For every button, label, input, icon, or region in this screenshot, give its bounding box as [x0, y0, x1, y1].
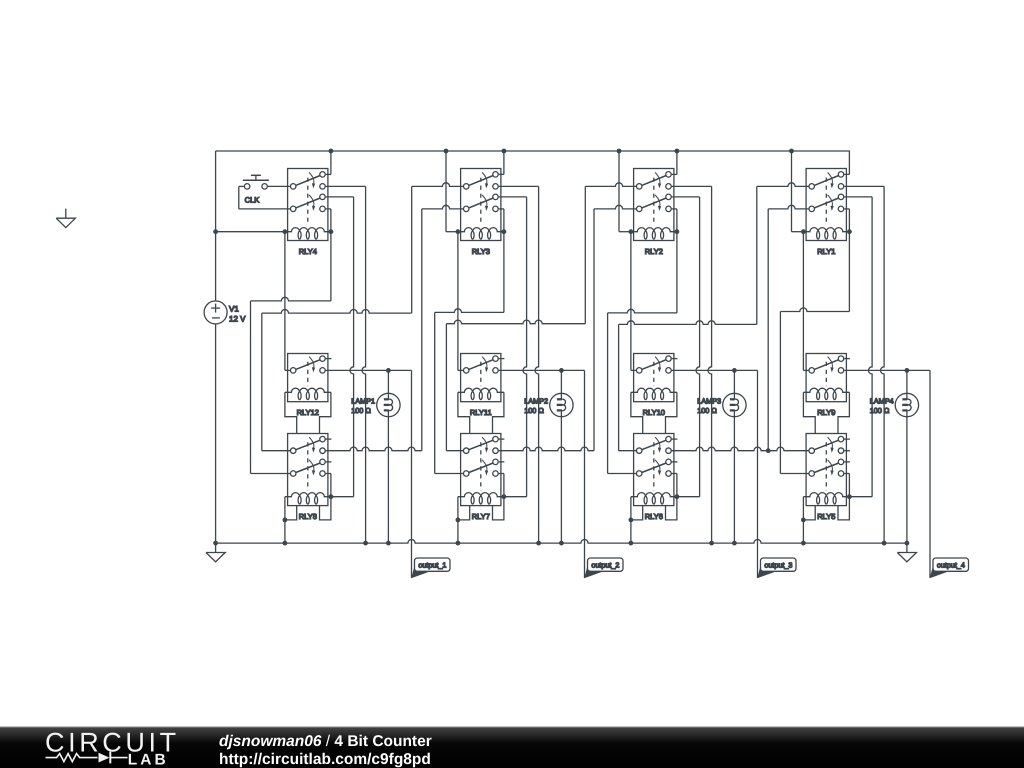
wire: RLY2 coil right down to h1 link — [676, 232, 678, 313]
svg-text:LAMP1: LAMP1 — [351, 396, 375, 405]
wire: V1 rail to RLY4 coil left — [216, 231, 285, 233]
stub: RLY11 NO unconnected — [499, 358, 505, 360]
wire: RLY11 NC to lamp and output node — [499, 369, 585, 371]
stub: RLY5 NO1 unconnected — [844, 438, 850, 440]
relay RLY5 pole 1 (common, NO, NC, blade, arrow) — [809, 448, 815, 454]
relay RLY5 pole 2 (common, NO, NC, blade, arrow) — [809, 471, 815, 477]
svg-text:RLY8: RLY8 — [299, 512, 317, 521]
stub: RLY6 NO1 unconnected — [672, 438, 678, 440]
voltage source V1 12 V — [204, 301, 227, 324]
junction dot RLY7 coil left — [456, 518, 461, 523]
wire: RLY2 NC2 down to coil right pin — [672, 208, 677, 210]
svg-text:LAB: LAB — [128, 751, 169, 768]
wire: RLY7 NC1 chain up to RLY2 common2 — [499, 447, 594, 451]
relay RLY1 coil — [803, 228, 849, 232]
relay RLY8 pole 2 (common, NO, NC, blade, arrow) — [290, 471, 296, 477]
relay RLY11 pole (common, NO, NC, blade, arrow) — [463, 368, 469, 374]
wire: RLY1 NC1 to bottom rail — [844, 185, 884, 187]
svg-text:RLY12: RLY12 — [297, 408, 319, 417]
wire: RLY3 coil right down to h1 link — [503, 232, 505, 313]
relay RLY10 coil — [631, 388, 677, 392]
svg-text:100 Ω: 100 Ω — [524, 406, 544, 415]
stub: RLY6 NO2 unconnected — [672, 461, 678, 463]
relay RLY10 (SPDT) box — [634, 354, 674, 402]
junction dot RLY6 coil right — [675, 494, 680, 499]
relay RLY8 (DPDT) box — [288, 434, 328, 506]
wire: RLY4 NC1 to bottom rail — [326, 185, 366, 187]
CircuitLab logo resistor and diode glyph — [46, 752, 128, 764]
relay RLY1 (DPDT) box — [806, 169, 846, 241]
wire: left power vertical from top rail to bottom rail — [215, 151, 217, 301]
relay RLY11 coil — [458, 388, 504, 392]
junction dot lamp top column 4 — [905, 368, 910, 373]
wire: lamp3 top lead — [733, 370, 735, 393]
svg-text:LAMP2: LAMP2 — [524, 396, 548, 405]
svg-text:LAMP3: LAMP3 — [697, 396, 721, 405]
svg-text:RLY2: RLY2 — [645, 247, 663, 256]
relay RLY9 pole (common, NO, NC, blade, arrow) — [809, 368, 815, 374]
wire: RLY4 coil right down to h1 link — [330, 232, 332, 301]
relay RLY5 (DPDT) box — [806, 434, 846, 506]
svg-text:100 Ω: 100 Ω — [697, 406, 717, 415]
svg-text:100 Ω: 100 Ω — [351, 406, 371, 415]
svg-text:LAMP4: LAMP4 — [870, 396, 894, 405]
lamp LAMP1 100 Ohm — [377, 393, 400, 416]
wire: h2 link column 3 (RLY6 common1 up and over to RLY1 common1) — [619, 450, 636, 452]
wire: RLY12 NC to lamp and output node — [326, 369, 412, 371]
wire: top rail jog to RLY2 coil left — [618, 151, 620, 232]
wire: RLY5 coil pin legs — [803, 506, 815, 520]
junction dot RLY8 coil left — [283, 518, 288, 523]
svg-text:output_2: output_2 — [591, 560, 619, 569]
wire: RLY4 NC2 down to coil right pin — [326, 208, 331, 210]
wire: top rail jog to RLY1 coil left — [791, 151, 793, 232]
wire: RLY6 coil pin legs — [631, 506, 643, 520]
relay RLY7 (DPDT) box — [461, 434, 501, 506]
ground (bottom left) — [215, 543, 217, 552]
wire: RLY7 NC2 down to coil right pin — [499, 473, 504, 475]
relay RLY6 pole 1 (common, NO, NC, blade, arrow) — [636, 448, 642, 454]
relay RLY6 (DPDT) box — [634, 434, 674, 506]
wire: RLY3 NC2 down to coil right pin — [499, 208, 504, 210]
svg-text:V1: V1 — [229, 305, 239, 314]
svg-text:output_4: output_4 — [937, 560, 965, 569]
stub: RLY10 NO unconnected — [672, 358, 678, 360]
stub: RLY12 NO unconnected — [326, 358, 332, 360]
wire: RLY3 NC1 to bottom rail — [499, 185, 539, 187]
wire: RLY1 NC2 down to coil right pin — [844, 208, 849, 210]
wire: RLY6 NC2 down to coil right pin — [672, 473, 677, 475]
lamp LAMP3 100 Ohm — [723, 393, 746, 416]
wire: top rail jog to RLY3 coil left — [445, 151, 447, 232]
svg-text:RLY10: RLY10 — [643, 408, 665, 417]
wire: output node column 2 down to flag — [584, 370, 586, 578]
ground symbol (floating, top left) — [65, 209, 67, 219]
svg-text:RLY4: RLY4 — [299, 247, 317, 256]
wire: output node column 3 down to flag — [757, 370, 759, 578]
wire: lamp1 bottom lead to ground rail — [387, 416, 389, 418]
relay RLY3 coil — [458, 228, 504, 232]
wire: h2 link column 2 (RLY7 common1 up and over to RLY2 common1) — [446, 450, 463, 452]
svg-text:RLY7: RLY7 — [472, 512, 490, 521]
svg-text:12 V: 12 V — [229, 314, 246, 323]
wire: RLY3 NO2 down to RLY7 coil right — [499, 196, 527, 198]
relay RLY8 coil — [285, 493, 331, 497]
wire: lamp3 bottom lead to ground rail — [733, 416, 735, 418]
wire: RLY10 NC to lamp and output node — [672, 369, 758, 371]
wire: RLY3 NO1 to top rail — [499, 173, 504, 175]
relay RLY4 (DPDT) box — [288, 169, 328, 241]
wire: RLY5 NC2 down to coil right pin — [844, 473, 849, 475]
relay RLY2 (DPDT) box — [634, 169, 674, 241]
wire: RLY8 NC1 chain up to RLY3 common2 — [326, 447, 422, 451]
svg-text:output_3: output_3 — [764, 560, 792, 569]
wire: RLY2 coil left down to RLY10 common — [630, 232, 632, 371]
junction dots at RLY1 coil pins — [801, 229, 806, 234]
wire: RLY2 NO2 down to RLY6 coil right — [672, 196, 700, 198]
relay RLY2 coil — [631, 228, 677, 232]
wire: RLY11 coil pins down to RLY7 — [458, 392, 470, 433]
stub: RLY8 NO2 unconnected — [326, 461, 332, 463]
stub: RLY9 NO unconnected — [844, 358, 850, 360]
junction dot lamp top column 2 — [559, 368, 564, 373]
junction dot lamp top column 3 — [732, 368, 737, 373]
wire: RLY6 NC1 chain through T junction to RLY5 common1 and up to RLY1 common2 — [672, 447, 809, 451]
junction dot RLY8 coil right — [329, 494, 334, 499]
relay RLY10 pole (common, NO, NC, blade, arrow) — [636, 368, 642, 374]
node flag output_3 — [757, 565, 775, 578]
relay RLY9 coil — [803, 388, 849, 392]
wire: lamp2 top lead — [560, 370, 562, 393]
relay RLY3 (DPDT) box — [461, 169, 501, 241]
wire: RLY6 coil left down to ground rail — [630, 497, 632, 543]
wire: RLY12 coil pins down to RLY8 — [285, 392, 297, 433]
wire: RLY4 NO2 down to RLY8 coil right — [326, 196, 354, 198]
wire: RLY1 coil right down to h1 link — [848, 232, 850, 312]
stub: RLY5 NC1 unconnected — [844, 450, 850, 452]
wire: RLY8 coil left down to ground rail — [284, 497, 286, 543]
svg-text:100 Ω: 100 Ω — [870, 406, 890, 415]
wire: RLY2 NC1 to bottom rail — [672, 185, 712, 187]
wire: RLY6 coil right to NO2 drop of RLY2 — [677, 496, 700, 498]
relay RLY2 pole 1 (common, NO, NC, blade, arrow) — [636, 184, 642, 190]
wire: CLK left terminal loop to RLY4 common2 — [239, 185, 244, 187]
node flag output_4 — [930, 565, 948, 578]
junction dot RLY7 coil right — [502, 494, 507, 499]
relay RLY3 pole 2 (common, NO, NC, blade, arrow) — [463, 206, 469, 212]
stub: RLY7 NO1 unconnected — [499, 438, 505, 440]
wire: RLY7 coil pin legs — [458, 506, 470, 520]
lamp LAMP4 100 Ohm — [895, 393, 918, 416]
stub: RLY7 NO2 unconnected — [499, 461, 505, 463]
wire: RLY8 coil right to NO2 drop of RLY4 — [331, 496, 354, 498]
wire: bottom ground rail — [216, 539, 907, 543]
junction dot RLY5 coil left — [801, 518, 806, 523]
wire: output node column 1 down to flag — [411, 370, 413, 578]
wire: h1 link of column 2 (to RLY7 common2) — [435, 309, 504, 313]
relay RLY11 (SPDT) box — [461, 354, 501, 402]
wire: RLY4 NO1 to top rail — [326, 173, 331, 175]
junction dots at RLY3 coil pins — [456, 229, 461, 234]
wire: h1 link of column 1 (to RLY8 common2) — [251, 297, 331, 301]
svg-text:RLY1: RLY1 — [817, 247, 835, 256]
junction dot lamp top column 1 — [386, 368, 391, 373]
svg-text:RLY9: RLY9 — [817, 408, 835, 417]
wire: RLY8 NC2 down to coil right pin — [326, 473, 331, 475]
wire: RLY9 coil pins down to RLY5 — [803, 392, 815, 433]
wire: RLY5 coil left down to ground rail — [802, 497, 804, 543]
relay RLY9 (SPDT) box — [806, 354, 846, 402]
wire: RLY7 coil left down to ground rail — [457, 497, 459, 543]
svg-text:RLY3: RLY3 — [472, 247, 490, 256]
wire: h1 link of column 4 (to RLY5 common2) — [780, 308, 849, 312]
junction dot RLY6 coil left — [629, 518, 634, 523]
relay RLY7 pole 1 (common, NO, NC, blade, arrow) — [463, 448, 469, 454]
junction dot RLY5 coil right — [847, 494, 852, 499]
wire: RLY1 coil left down to RLY9 common — [802, 232, 804, 371]
pushbutton switch CLK — [244, 184, 250, 190]
svg-text:output_1: output_1 — [418, 560, 446, 569]
wire: h1 link of column 3 (to RLY6 common2) — [608, 309, 677, 313]
relay RLY4 pole 1 (common, NO, NC, blade, arrow) — [290, 184, 296, 190]
relay RLY12 coil — [285, 388, 331, 392]
relay RLY3 pole 1 (common, NO, NC, blade, arrow) — [463, 184, 469, 190]
wire: h2 link column 1 (RLY8 common1 up and over to RLY3 common1) — [262, 450, 290, 452]
svg-text:RLY11: RLY11 — [470, 408, 492, 417]
ground (bottom right) — [906, 543, 908, 552]
wire: RLY1 NO2 down to RLY5 coil right — [844, 196, 872, 198]
svg-text:djsnowman06 / 4 Bit Counter: djsnowman06 / 4 Bit Counter — [219, 733, 432, 750]
lamp LAMP2 100 Ohm — [550, 393, 573, 416]
wire: RLY2 NO1 to top rail — [672, 173, 677, 175]
stub: RLY5 NO2 unconnected — [844, 461, 850, 463]
relay RLY6 pole 2 (common, NO, NC, blade, arrow) — [636, 471, 642, 477]
wire: RLY3 coil left down to RLY11 common — [457, 232, 459, 371]
wire: lamp4 bottom lead to ground rail — [906, 416, 908, 418]
wire: RLY7 coil right to NO2 drop of RLY3 — [504, 496, 527, 498]
svg-text:CLK: CLK — [245, 196, 260, 205]
junction dots on bottom rail — [283, 541, 288, 546]
wire: RLY5 coil right to NO2 drop of RLY1 — [849, 496, 872, 498]
wire: RLY9 NC to lamp and output node — [844, 369, 930, 371]
relay RLY6 coil — [631, 493, 677, 497]
wire: RLY8 coil pin legs — [285, 506, 297, 520]
relay RLY12 (SPDT) box — [288, 354, 328, 402]
node flag output_1 — [411, 565, 429, 578]
relay RLY7 coil — [458, 493, 504, 497]
relay RLY7 pole 2 (common, NO, NC, blade, arrow) — [463, 471, 469, 477]
relay RLY4 coil — [285, 228, 331, 232]
junction dots at RLY2 coil pins — [629, 229, 634, 234]
wire: RLY1 NO1 to top rail — [844, 173, 849, 175]
wire: lamp2 bottom lead to ground rail — [560, 416, 562, 418]
relay RLY4 pole 2 (common, NO, NC, blade, arrow) — [290, 206, 296, 212]
relay RLY1 pole 1 (common, NO, NC, blade, arrow) — [809, 184, 815, 190]
wire: CLK right terminal to RLY4 common1 — [268, 185, 290, 187]
node flag output_2 — [584, 565, 602, 578]
svg-text:RLY5: RLY5 — [817, 512, 835, 521]
junction dots on top rail — [329, 149, 334, 154]
stub: RLY8 NO1 unconnected — [326, 438, 332, 440]
wire: lamp4 top lead — [906, 370, 908, 393]
wire: lamp1 top lead — [387, 370, 389, 393]
svg-text:RLY6: RLY6 — [645, 512, 663, 521]
wire: RLY10 coil pins down to RLY6 — [631, 392, 643, 433]
relay RLY8 pole 1 (common, NO, NC, blade, arrow) — [290, 448, 296, 454]
relay RLY5 coil — [803, 493, 849, 497]
junction dots at RLY4 coil pins — [283, 229, 288, 234]
wire: RLY4 coil left down to RLY12 common — [284, 232, 286, 371]
relay RLY12 pole (common, NO, NC, blade, arrow) — [290, 368, 296, 374]
relay RLY1 pole 2 (common, NO, NC, blade, arrow) — [809, 206, 815, 212]
relay RLY2 pole 2 (common, NO, NC, blade, arrow) — [636, 206, 642, 212]
svg-text:http://circuitlab.com/c9fg8pd: http://circuitlab.com/c9fg8pd — [219, 751, 431, 768]
wire: top supply rail — [216, 150, 850, 152]
wire: output node column 4 down to flag — [929, 370, 931, 578]
